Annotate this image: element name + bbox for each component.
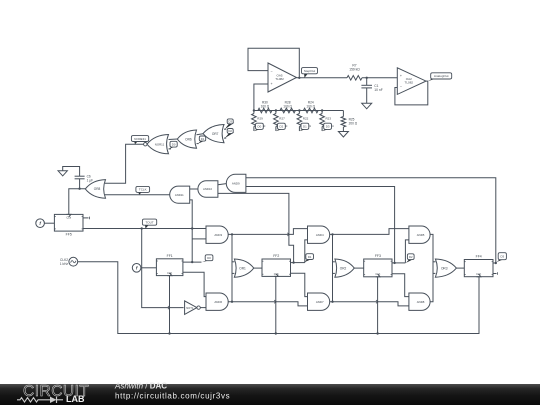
svg-text:D3: D3: [228, 120, 232, 124]
svg-text:StepOut: StepOut: [304, 69, 315, 73]
svg-text:159 kΩ: 159 kΩ: [349, 68, 360, 72]
svg-text:200 Ω: 200 Ω: [349, 122, 358, 126]
svg-text:NODE31: NODE31: [134, 137, 146, 141]
svg-text:OR8: OR8: [94, 187, 101, 191]
svg-text:OR7: OR7: [212, 132, 219, 136]
svg-text:TCLK: TCLK: [139, 188, 147, 192]
svg-text:100 Ω: 100 Ω: [261, 105, 270, 109]
svg-text:R27: R27: [279, 116, 285, 120]
svg-text:AND6: AND6: [214, 300, 222, 304]
svg-text:1 kHz: 1 kHz: [60, 262, 69, 266]
svg-text:D1: D1: [308, 255, 312, 259]
svg-text:D3: D3: [501, 254, 505, 258]
svg-text:OR6: OR6: [185, 137, 192, 141]
svg-text:NOR11: NOR11: [155, 142, 165, 146]
svg-text:NOT1: NOT1: [186, 306, 194, 310]
svg-text:D0: D0: [207, 256, 211, 260]
svg-text:FF2: FF2: [273, 254, 279, 258]
svg-text:CLK: CLK: [274, 272, 279, 276]
svg-text:http://circuitlab.com/cujr3vs: http://circuitlab.com/cujr3vs: [115, 392, 230, 401]
svg-text:100 Ω: 100 Ω: [306, 105, 315, 109]
svg-text:R22: R22: [303, 116, 309, 120]
svg-text:AND8: AND8: [417, 300, 425, 304]
svg-text:AND7: AND7: [316, 300, 324, 304]
svg-text:D1: D1: [303, 125, 307, 129]
svg-text:AND10: AND10: [203, 187, 212, 191]
svg-text:AND5: AND5: [417, 233, 425, 237]
svg-text:D2: D2: [280, 125, 284, 129]
svg-text:D2: D2: [228, 129, 232, 133]
svg-text:OR1: OR1: [239, 266, 246, 270]
svg-text:AnalogOut: AnalogOut: [434, 74, 449, 78]
svg-text:−: −: [400, 85, 402, 89]
svg-text:D3: D3: [326, 125, 330, 129]
svg-text:OR2: OR2: [340, 266, 347, 270]
svg-text:CLK: CLK: [375, 272, 380, 276]
svg-text:1 µF: 1 µF: [87, 179, 93, 183]
svg-text:R29: R29: [257, 116, 263, 120]
svg-text:D0: D0: [258, 125, 262, 129]
svg-text:R23: R23: [326, 116, 332, 120]
svg-text:−: −: [271, 70, 273, 74]
svg-text:FF5: FF5: [66, 233, 72, 237]
svg-text:CLK: CLK: [476, 272, 481, 276]
svg-text:10 nF: 10 nF: [374, 88, 382, 92]
svg-text:100 Ω: 100 Ω: [283, 105, 292, 109]
svg-text:AND11: AND11: [175, 193, 184, 197]
svg-text:FF3: FF3: [375, 254, 381, 258]
svg-text:AND3: AND3: [214, 233, 222, 237]
svg-text:D2: D2: [409, 255, 413, 259]
svg-text:OR3: OR3: [441, 266, 448, 270]
svg-text:CLk: CLk: [66, 216, 71, 220]
svg-text:LAB: LAB: [66, 394, 85, 404]
svg-text:FF1: FF1: [167, 254, 173, 258]
svg-text:TOUT: TOUT: [145, 220, 153, 224]
svg-text:CLK: CLK: [167, 271, 172, 275]
svg-text:TL082: TL082: [405, 81, 414, 85]
svg-text:AND9: AND9: [232, 182, 240, 186]
svg-text:D1: D1: [201, 137, 205, 141]
svg-text:+: +: [400, 74, 402, 78]
svg-text:FF4: FF4: [476, 255, 482, 259]
svg-text:D0: D0: [172, 142, 176, 146]
svg-text:AND4: AND4: [316, 233, 324, 237]
svg-text:Ashwith / DAC: Ashwith / DAC: [114, 382, 167, 391]
svg-text:TL082: TL082: [275, 77, 284, 81]
svg-text:+: +: [271, 82, 273, 86]
